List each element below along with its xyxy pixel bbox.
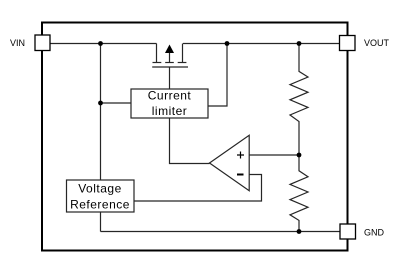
border top segment (VIN pad top to VOUT pad top) — [42, 23, 348, 36]
drain contact bar — [178, 62, 187, 64]
gate wire down to current limiter — [169, 67, 171, 89]
wire drain rail to VOUT — [183, 43, 340, 45]
svg-text:GND: GND — [364, 228, 385, 238]
source terminal — [156, 44, 158, 63]
current limiter box U2 — [131, 89, 208, 118]
minus input marker — [237, 174, 244, 176]
svg-text:limiter: limiter — [152, 104, 188, 118]
wire vertical supply line (behind Voltage Reference) — [100, 44, 102, 232]
pad VIN — [35, 35, 50, 51]
junction dot current limiter left — [98, 101, 103, 106]
drain terminal — [182, 44, 184, 63]
svg-text:Reference: Reference — [70, 198, 130, 212]
svg-text:VOUT: VOUT — [364, 38, 390, 48]
wire op-amp + input to feedback node — [249, 154, 299, 156]
wire VIN rail — [50, 43, 157, 45]
bulk arrow shaft — [169, 50, 171, 63]
junction dot feedback node — [297, 153, 302, 158]
plus input marker — [237, 152, 244, 159]
svg-text:Voltage: Voltage — [78, 182, 122, 196]
voltage reference box U3 — [67, 180, 135, 212]
border right segment (VOUT pad bottom to GND pad top) — [347, 51, 349, 225]
junction dot drain rail / sense — [225, 41, 230, 46]
junction dot VIN rail — [98, 41, 103, 46]
svg-text:VIN: VIN — [10, 38, 25, 48]
border bottom+left segment (GND pad bottom to VIN pad bottom) — [42, 51, 348, 251]
transistor Q1 (PMOS pass device) — [152, 44, 188, 90]
svg-text:Current: Current — [148, 88, 192, 102]
pad VOUT — [340, 36, 356, 51]
op-amp U1 (error amplifier, pointing left) — [210, 135, 250, 190]
resistor R2 (lower feedback resistor) — [290, 155, 308, 232]
wire current limiter output to op-amp — [170, 118, 210, 164]
source contact bar — [153, 62, 162, 64]
bulk arrow head — [165, 45, 174, 54]
junction dot ground rail / R2 bottom — [297, 229, 302, 234]
wire op-amp - input to voltage reference — [134, 175, 262, 202]
bulk contact bar — [165, 62, 174, 64]
pad GND — [340, 224, 356, 239]
wire ground rail — [101, 231, 341, 233]
wire to current limiter left — [101, 102, 132, 104]
resistor R1 (upper feedback resistor) — [290, 44, 308, 156]
gate bar — [152, 66, 188, 68]
junction dot VOUT rail / R1 top — [297, 41, 302, 46]
wire current limiter right sense — [208, 44, 227, 107]
